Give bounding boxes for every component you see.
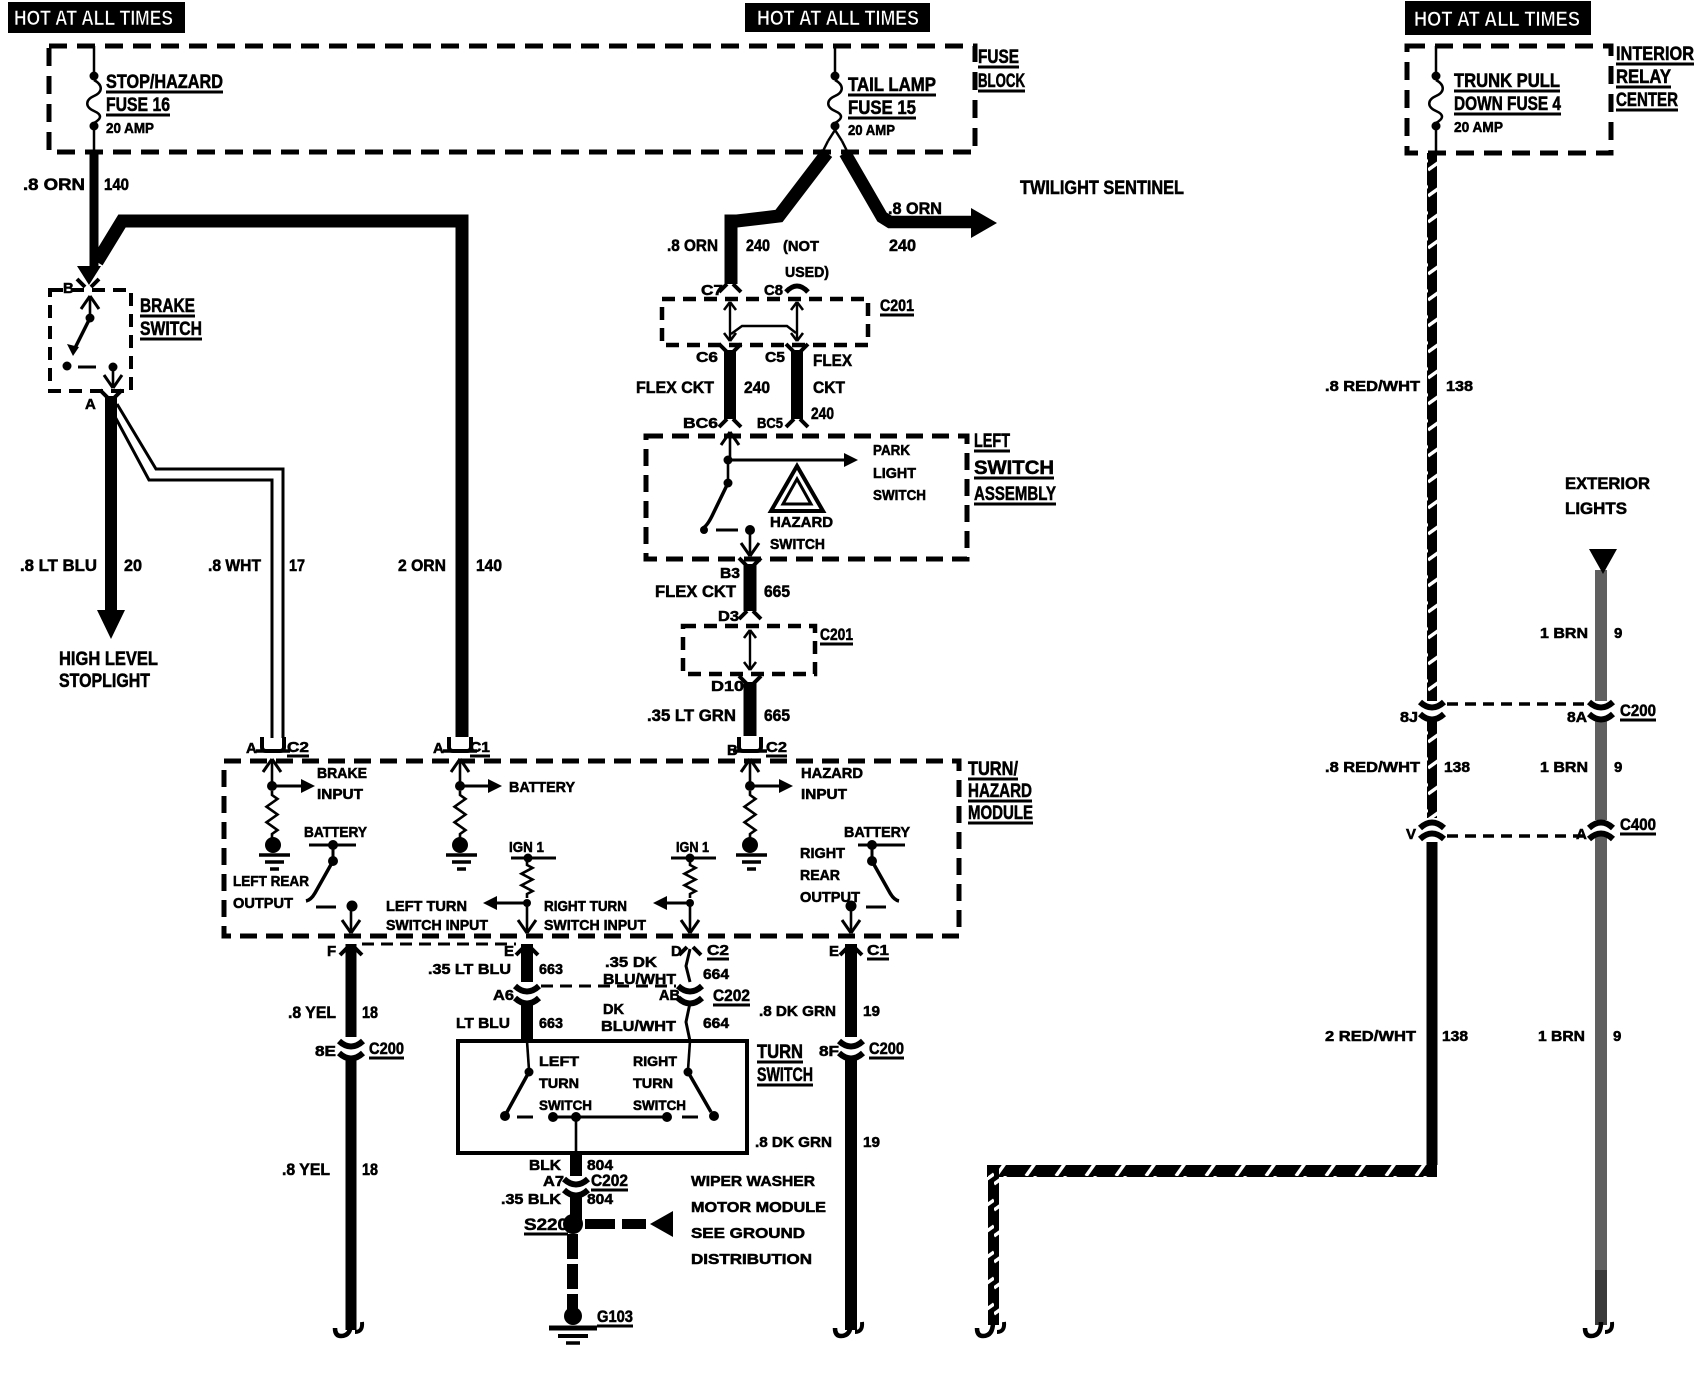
svg-text:FLEX CKT: FLEX CKT [636,378,715,397]
svg-text:.8 ORN: .8 ORN [888,199,942,218]
svg-text:MOTOR MODULE: MOTOR MODULE [691,1199,826,1216]
wire DK BLU/WHT 664 (lower, thin) [686,1003,690,1041]
wire .35 LT GRN 665 [744,682,757,736]
IGN 1 feed (right) [671,839,716,863]
svg-text:SWITCH: SWITCH [757,1065,813,1086]
label LEFT REAR OUTPUT [233,873,309,912]
svg-text:20 AMP: 20 AMP [106,120,154,137]
svg-text:C1: C1 [867,942,889,959]
label TRUNK PULL DOWN FUSE 4 20 AMP [1454,71,1561,136]
label 2 ORN 140 [398,556,502,575]
module pin F arrow [350,906,353,933]
svg-text:LEFT REAR: LEFT REAR [233,873,309,890]
svg-text:8E: 8E [315,1043,336,1060]
svg-text:SWITCH: SWITCH [633,1097,686,1113]
label INTERIOR RELAY CENTER [1616,44,1694,111]
svg-text:HAZARD: HAZARD [801,765,863,782]
wire .8 ORN 140 from fuse 16 [90,152,99,266]
wire .8 RED/WHT 138 (striped) from trunk fuse [1427,153,1437,818]
svg-text:20 AMP: 20 AMP [848,122,895,139]
svg-text:RIGHT: RIGHT [633,1053,677,1069]
right turn switch blade [684,1041,720,1121]
power label HOT AT ALL TIMES (middle) [745,3,930,32]
svg-text:18: 18 [362,1160,378,1179]
module pin A arrow (brake input) [271,759,274,786]
svg-text:TURN: TURN [633,1075,673,1091]
connector BC5 flare [757,415,808,432]
label FUSE BLOCK [978,47,1025,92]
svg-text:C200: C200 [1620,701,1656,720]
wire 2 RED/WHT 138 (solid) below V [1427,842,1438,1165]
svg-text:BRAKE: BRAKE [140,296,195,317]
svg-text:C6: C6 [696,349,718,366]
svg-text:LEFT: LEFT [974,431,1010,452]
power label HOT AT ALL TIMES (left) [8,2,185,33]
svg-text:.8 RED/WHT: .8 RED/WHT [1325,759,1420,776]
svg-text:240: 240 [744,378,770,397]
module pin F flare [327,943,362,960]
wire FLEX CKT 240 (right) [791,350,803,419]
svg-text:C2: C2 [287,739,309,756]
label LEFT TURN SWITCH INPUT [386,898,488,934]
svg-text:F: F [327,943,336,960]
resistor (brake input pull-down) [267,791,278,838]
connector B3 flare [720,558,761,582]
svg-text:8J: 8J [1400,709,1418,726]
svg-text:9: 9 [1613,1028,1621,1045]
IGN 1 feed (left) [509,839,556,863]
svg-text:BATTERY: BATTERY [844,824,910,841]
label .35 DK BLU/WHT 664 [603,954,730,988]
svg-text:TRUNK PULL: TRUNK PULL [1454,71,1560,92]
svg-text:240: 240 [746,236,770,255]
arrow LEFT TURN SWITCH INPUT [495,902,527,905]
arrow BRAKE INPUT [272,785,303,788]
svg-text:C8: C8 [764,282,783,299]
svg-text:.8 LT BLU: .8 LT BLU [20,556,97,575]
svg-text:FUSE 16: FUSE 16 [106,95,170,116]
hazard switch blade [700,460,755,535]
svg-text:TURN: TURN [539,1075,579,1091]
module pin E arrow [526,903,529,933]
turn switch common bus [517,1112,698,1122]
label HIGH LEVEL STOPLIGHT [59,649,158,692]
svg-text:INPUT: INPUT [317,786,363,803]
label .8 ORN 140 [23,175,129,194]
svg-text:665: 665 [764,706,790,725]
label BRAKE INPUT [317,765,367,803]
svg-text:1 BRN: 1 BRN [1540,759,1588,776]
connector C8 cap (not used) [764,282,808,299]
node brake input [267,781,277,791]
svg-text:D10: D10 [711,678,744,695]
svg-text:20: 20 [124,556,142,575]
turn switch enclosure (solid) [458,1041,747,1153]
svg-text:EXTERIOR: EXTERIOR [1565,474,1650,493]
label .8 LT BLU 20 [20,556,142,575]
label .8 DK GRN 19 (lower) [755,1134,880,1151]
label .35 LT GRN 665 [647,706,790,725]
C201 internal pass-through C8-C5 [791,302,803,341]
svg-text:REAR: REAR [800,867,840,884]
left turn switch blade [500,1041,534,1121]
svg-text:664: 664 [703,966,730,983]
ground (module internal, right) [736,837,767,869]
svg-text:SWITCH: SWITCH [873,487,926,504]
label RIGHT TURN SWITCH INPUT [544,898,646,934]
svg-text:663: 663 [539,961,563,978]
svg-text:.8 DK GRN: .8 DK GRN [755,1134,832,1151]
svg-text:C201: C201 [880,296,914,315]
pin B3 arrow out of assembly [749,530,752,556]
label .8 RED/WHT 138 (middle) [1325,759,1470,776]
brake switch internals: pin B arrow, blade, pin A arrow [63,296,123,388]
resistor (left turn) [522,861,533,898]
svg-text:138: 138 [1446,378,1473,395]
svg-text:19: 19 [863,1003,880,1020]
label TURN SWITCH [757,1042,813,1086]
svg-text:C202: C202 [591,1171,628,1190]
label .8 ORN 240 (NOT USED) (left branch) [667,236,829,281]
label EXTERIOR LIGHTS [1565,474,1650,518]
resistor (right turn) [685,861,696,898]
C201 internal link wire [731,326,796,334]
ground G103 [549,1307,633,1343]
connector D3 flare [718,608,761,625]
brake switch enclosure (dashed) [50,290,131,391]
svg-text:C201: C201 [820,625,853,644]
label LEFT TURN SWITCH [539,1053,592,1113]
wire .8 WHT 17 (double line) from brake switch to module C2-A [117,404,283,738]
wire .8 LT BLU 20 to high level stoplight [105,396,117,614]
wire end hook (red/wht drop) [977,1322,993,1336]
svg-text:2 RED/WHT: 2 RED/WHT [1325,1028,1416,1045]
svg-text:TURN: TURN [757,1042,803,1063]
fuse F4 TRUNK PULL DOWN 20A + interior relay center box [1407,46,1611,153]
svg-text:LIGHTS: LIGHTS [1565,499,1627,518]
svg-text:BATTERY: BATTERY [509,779,575,796]
label FLEX CKT 240 [636,378,770,397]
connector C201 (upper) enclosure [662,299,868,345]
svg-text:C2: C2 [766,739,787,756]
svg-text:CENTER: CENTER [1616,90,1678,111]
dashed link V to A [1447,834,1586,838]
label 1 BRN 9 (lower) [1538,1028,1621,1045]
svg-text:BATTERY: BATTERY [304,824,367,841]
wire end hook (right of turn switch) [835,1322,851,1336]
svg-text:17: 17 [289,556,305,575]
wire .8 YEL 18 (upper) [346,944,357,1037]
dashed link A6 to AB [541,985,676,988]
left rear output switch [306,840,358,912]
label FLEX CKT 665 [655,582,790,601]
svg-text:664: 664 [703,1015,730,1032]
connector V C400 [1406,823,1444,844]
svg-text:SWITCH INPUT: SWITCH INPUT [386,917,488,934]
label HAZARD SWITCH [770,514,833,553]
svg-text:18: 18 [362,1003,378,1022]
module pin E flare / C1 (right) [829,942,889,960]
svg-text:STOP/HAZARD: STOP/HAZARD [106,72,223,93]
svg-text:BC6: BC6 [683,415,718,432]
node right turn switch input [686,899,694,907]
label .8 DK GRN 19 (upper) [759,1003,880,1020]
wire end hook (brn) [1585,1322,1601,1336]
svg-text:C200: C200 [869,1039,904,1058]
svg-text:A: A [246,740,257,757]
svg-text:B3: B3 [720,565,740,582]
connector gaps on wires at C200/C400 [1423,701,1441,717]
module pin E arrow (right rear output) [850,906,853,933]
label RIGHT TURN SWITCH [633,1053,686,1113]
svg-text:E: E [504,943,514,960]
wire .8 YEL 18 (lower) [346,1059,357,1330]
svg-text:8F: 8F [819,1043,839,1060]
wire FLEX CKT 240 (left) [724,350,736,419]
connector C5 flare [765,344,808,366]
left switch assembly enclosure (dashed) [646,436,967,559]
svg-text:C1: C1 [470,739,490,756]
label WIPER WASHER MOTOR MODULE SEE GROUND DISTRIBUTION [691,1173,826,1268]
svg-text:E: E [829,943,839,960]
svg-text:MODULE: MODULE [968,803,1033,824]
svg-text:665: 665 [764,582,790,601]
label .8 WHT 17 [208,556,305,575]
svg-text:9: 9 [1614,625,1622,642]
pin BC6 arrow into assembly [729,432,732,460]
connector A7 C202 [543,1171,628,1196]
connector BC6 flare [683,415,741,432]
svg-text:HOT AT ALL TIMES: HOT AT ALL TIMES [14,7,173,30]
svg-text:.35 LT GRN: .35 LT GRN [647,706,736,725]
svg-text:PARK: PARK [873,442,910,459]
svg-text:C5: C5 [765,349,785,366]
wire .35 LT BLU 663 [521,944,533,982]
node left turn switch input [523,899,531,907]
label BLK 804 [529,1157,614,1174]
svg-text:FUSE: FUSE [978,47,1019,68]
svg-text:LT BLU: LT BLU [456,1015,510,1032]
svg-text:A6: A6 [493,987,514,1004]
wire FLEX CKT 665 [744,564,757,611]
svg-text:240: 240 [889,236,916,255]
svg-text:138: 138 [1442,1028,1468,1045]
connector A / C1 cup (battery pin) [433,737,490,757]
connector C201 (lower) enclosure [683,626,815,674]
svg-text:8A: 8A [1567,709,1587,726]
svg-text:2 ORN: 2 ORN [398,556,446,575]
label DK BLU/WHT 664 [601,1001,730,1035]
resistor (hazard input) [745,791,756,838]
svg-text:G103: G103 [597,1307,633,1326]
svg-text:240: 240 [811,404,834,423]
arrow to PARK LIGHT SWITCH [728,459,846,462]
svg-text:RIGHT: RIGHT [800,845,845,862]
wire .35 DK BLU/WHT 664 (upper, thin) [686,949,690,982]
svg-text:AB: AB [659,987,680,1004]
label HAZARD INPUT [801,765,863,803]
label RIGHT REAR OUTPUT [800,845,860,906]
power label HOT AT ALL TIMES (right) [1405,1,1591,35]
svg-text:(NOT: (NOT [783,238,819,255]
wire .8 DK GRN 19 (lower) [845,1059,857,1330]
label LEFT SWITCH ASSEMBLY [974,431,1056,505]
label FLEX CKT 240 (right) [811,351,853,423]
svg-text:HIGH LEVEL: HIGH LEVEL [59,649,158,670]
connector AB C202 [659,986,750,1005]
svg-text:SWITCH: SWITCH [770,536,825,553]
svg-text:BRAKE: BRAKE [317,765,367,782]
dashed wire to wiper washer motor module [585,1211,673,1237]
label 1 BRN 9 (middle) [1540,759,1622,776]
fuse block enclosure (dashed) [49,46,975,152]
label .8 ORN 240 (right branch) [888,199,942,255]
svg-text:.8 YEL: .8 YEL [282,1160,330,1179]
wire 1 BRN 9 (stippled gray) from exterior lights [1595,570,1607,1270]
module pin E flare [504,943,538,960]
feed arrowhead from exterior lights [1589,549,1617,574]
svg-text:1 BRN: 1 BRN [1540,625,1588,642]
label 2 RED/WHT 138 [1325,1028,1468,1045]
svg-text:RELAY: RELAY [1616,67,1671,88]
svg-text:LEFT: LEFT [539,1053,580,1069]
dashed ground wire below S220 [567,1234,578,1310]
resistor (battery) [455,791,466,838]
wire .8 ORN 240 split right branch to twilight sentinel [845,153,975,222]
svg-text:.35 BLK: .35 BLK [501,1191,561,1208]
svg-text:A: A [85,396,96,413]
svg-text:C202: C202 [713,986,750,1005]
svg-text:S220: S220 [524,1215,568,1234]
svg-text:HOT AT ALL TIMES: HOT AT ALL TIMES [757,7,919,30]
svg-text:20 AMP: 20 AMP [1454,119,1503,136]
svg-text:SWITCH: SWITCH [539,1097,592,1113]
label .35 LT BLU 663 [428,961,563,978]
label BRAKE SWITCH [140,296,202,340]
connector A6 C202 [493,986,539,1004]
svg-text:BLK: BLK [529,1157,561,1174]
label C201 [880,296,914,315]
connector C7 flare [701,282,741,299]
ground (module internal, left) [259,837,290,869]
svg-text:SEE GROUND: SEE GROUND [691,1225,805,1242]
arrow HAZARD INPUT [750,785,781,788]
svg-text:HAZARD: HAZARD [968,781,1032,802]
svg-text:FLEX CKT: FLEX CKT [655,582,737,601]
svg-text:BLOCK: BLOCK [978,71,1025,92]
svg-text:INTERIOR: INTERIOR [1616,44,1694,65]
svg-text:.8 YEL: .8 YEL [288,1003,336,1022]
svg-text:.35 DK: .35 DK [605,954,657,971]
svg-text:HAZARD: HAZARD [770,514,833,531]
svg-text:.8 ORN: .8 ORN [667,236,718,255]
svg-text:LIGHT: LIGHT [873,465,916,482]
svg-text:RIGHT TURN: RIGHT TURN [544,898,627,915]
ground (module internal, middle) [446,837,477,869]
fuse F16 STOP/HAZARD 20A [87,46,101,152]
arrow BATTERY [460,785,490,788]
svg-text:WIPER WASHER: WIPER WASHER [691,1173,815,1190]
junction node park light [724,456,733,465]
arrowhead TWILIGHT SENTINEL [971,208,997,238]
connector 8E C200 [315,1039,404,1060]
svg-text:.8 WHT: .8 WHT [208,556,262,575]
wire .35 BLK 804 [570,1196,582,1222]
svg-text:USED): USED) [785,264,829,281]
hazard warning triangle symbol [771,466,823,511]
wire 2 RED/WHT horizontal run (striped) [987,1165,1437,1177]
connector A C400 [1576,815,1656,843]
svg-text:.8 DK GRN: .8 DK GRN [759,1003,836,1020]
svg-text:BC5: BC5 [757,415,783,432]
connector pin A flare (brake switch output) [85,390,122,413]
label TAIL LAMP FUSE 15 20 AMP [848,75,936,139]
svg-text:A: A [433,740,444,757]
svg-text:FLEX: FLEX [813,351,853,370]
dashed link pin F to pin E [362,943,516,946]
svg-text:V: V [1406,826,1416,843]
C201 lower internal pass-through [744,630,756,670]
label PARK LIGHT SWITCH [873,442,926,504]
svg-text:IGN 1: IGN 1 [676,839,709,856]
svg-text:LEFT TURN: LEFT TURN [386,898,467,915]
wire LT BLU 663 [521,1003,533,1041]
label 1 BRN 9 (upper) [1540,625,1622,642]
connector C6 flare [696,344,741,366]
connector pin B flare [63,279,99,297]
label .8 YEL 18 (upper) [288,1003,378,1022]
svg-text:663: 663 [539,1015,563,1032]
svg-text:140: 140 [476,556,502,575]
wire BLK 804 [570,1153,582,1176]
dashed link 8J to 8A [1447,702,1586,706]
svg-text:STOPLIGHT: STOPLIGHT [59,671,150,692]
svg-text:DOWN FUSE 4: DOWN FUSE 4 [1454,94,1561,115]
turn/hazard module enclosure (dashed) [224,761,959,936]
label .8 RED/WHT 138 (upper) [1325,378,1473,395]
svg-text:FUSE 15: FUSE 15 [848,98,916,119]
label LT BLU 663 [456,1015,563,1032]
svg-text:804: 804 [587,1191,614,1208]
splice S220 [524,1214,583,1234]
connector 8J C200 [1400,702,1444,726]
svg-text:140: 140 [104,175,129,194]
svg-text:C200: C200 [369,1039,404,1058]
label C201 (lower) [820,625,853,644]
module pin A arrow (battery) [459,759,462,786]
svg-text:SWITCH: SWITCH [974,458,1054,479]
junction arrowhead at brake switch pin B [77,266,101,285]
svg-text:A: A [1576,826,1587,843]
svg-text:OUTPUT: OUTPUT [233,895,293,912]
wire 2 ORN 140 feed bar (thick) to C1 [97,221,462,737]
svg-text:C400: C400 [1620,815,1656,834]
connector 8F C200 [819,1039,904,1060]
svg-text:HOT AT ALL TIMES: HOT AT ALL TIMES [1414,8,1580,31]
svg-text:19: 19 [863,1134,880,1151]
svg-text:D3: D3 [718,608,739,625]
svg-text:.35 LT BLU: .35 LT BLU [428,961,511,978]
svg-text:BLU/WHT: BLU/WHT [601,1018,676,1035]
wire end hook (left) [335,1322,351,1336]
connector B / C2 cup (hazard input pin) [727,737,787,759]
C201 internal pass-through C7-C6 [724,302,736,341]
svg-text:SWITCH INPUT: SWITCH INPUT [544,917,646,934]
svg-text:TWILIGHT SENTINEL: TWILIGHT SENTINEL [1020,178,1184,199]
svg-text:1 BRN: 1 BRN [1538,1028,1585,1045]
right rear output switch [846,840,906,912]
label STOP/HAZARD FUSE 16 20 AMP [106,72,223,137]
